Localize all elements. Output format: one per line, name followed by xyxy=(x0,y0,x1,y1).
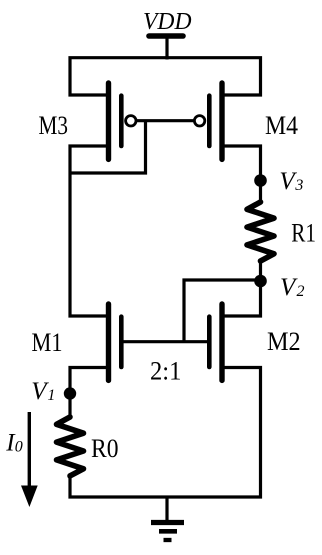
wire: M1 source to V1 and R0 top xyxy=(70,368,109,418)
transistor M3 (PMOS) xyxy=(109,83,122,159)
resistor R0 xyxy=(57,417,84,476)
wire: PMOS common gate (M3-M4) xyxy=(137,119,195,122)
power symbol VDD bar xyxy=(149,33,183,39)
transistor M4 gate bubble xyxy=(194,116,204,126)
ground xyxy=(151,523,184,541)
label node V2 xyxy=(280,274,305,301)
svg-text:R1: R1 xyxy=(291,217,316,247)
wire: NMOS common gate (M1-M2) xyxy=(122,340,209,343)
wire: ground stub xyxy=(165,497,168,521)
resistor R1 xyxy=(247,202,274,261)
svg-text:M3: M3 xyxy=(39,110,69,140)
label node V1 xyxy=(31,378,55,405)
svg-text:2: 2 xyxy=(297,283,305,300)
svg-text:V: V xyxy=(280,274,298,301)
wire: R0 bottom, bottom rail, M2 source xyxy=(70,368,261,498)
node V2 junction dot xyxy=(254,275,267,288)
wire: M3 drain, left vertical bus, M1 drain xyxy=(70,146,109,316)
svg-text:M4: M4 xyxy=(265,110,298,140)
wire: M3 gate-to-drain diode tap xyxy=(70,121,146,173)
transistor M1 (NMOS) xyxy=(109,304,122,380)
svg-text:3: 3 xyxy=(294,177,303,194)
wire: VDD stub xyxy=(165,36,168,60)
svg-text:1: 1 xyxy=(47,387,55,404)
svg-text:0: 0 xyxy=(15,438,23,455)
node V3 junction dot xyxy=(254,174,267,187)
node V1 junction dot xyxy=(64,387,76,399)
svg-text:M1: M1 xyxy=(32,327,63,357)
wire: R1 bottom to node V2 and M2 drain xyxy=(222,261,261,316)
label current I0 xyxy=(5,429,22,456)
transistor M4 (PMOS) xyxy=(209,83,222,159)
current arrow I0 xyxy=(21,412,38,507)
label node V3 xyxy=(279,168,303,195)
wire: M4 drain down to node V3 / R1 top xyxy=(222,146,261,202)
wire: top rail with drops to M3/M4 sources xyxy=(70,58,261,95)
wire: V2 to NMOS gates tap xyxy=(184,280,261,342)
svg-text:R0: R0 xyxy=(91,433,119,463)
svg-text:VDD: VDD xyxy=(143,8,192,35)
svg-text:2:1: 2:1 xyxy=(150,355,181,385)
svg-text:M2: M2 xyxy=(267,326,301,356)
transistor M3 gate bubble xyxy=(126,116,136,126)
transistor M2 (NMOS) xyxy=(209,304,222,380)
